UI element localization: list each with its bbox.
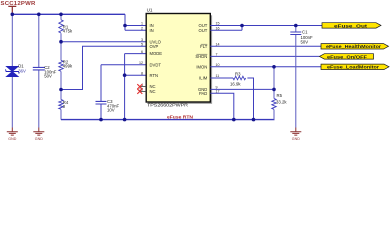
svg-text:12: 12 [139,61,143,65]
wire IN feed [125,14,146,30]
IC pin names right [195,23,207,96]
svg-text:SHDN: SHDN [195,54,207,59]
ground GND (C1) [290,128,301,142]
svg-text:16.9k: 16.9k [230,82,241,87]
FLT overline [201,43,208,45]
no-connect X pin 4 [137,84,142,89]
resistor R4 [59,100,69,110]
resistor R5 [272,93,288,109]
port eFuse_On/OFF [319,54,373,60]
ground GND (C2) [33,128,44,142]
pin numbers right [216,22,220,94]
resistor R1 [59,20,73,34]
IC pin names left [150,23,163,94]
wire ILIM with R3 [210,78,253,120]
wire PAD pin [210,93,234,119]
TVS diode D1 [6,63,26,76]
svg-text:R5: R5 [277,93,283,98]
wire C2 drop [38,14,40,127]
svg-text:R3: R3 [235,72,241,77]
wire C1 column [295,26,297,128]
port eFuse_Out [322,23,381,29]
svg-text:GND: GND [292,137,300,141]
svg-text:eFuse RTN: eFuse RTN [167,115,194,121]
capacitor C1 [290,29,313,44]
wire RTN pin [125,74,147,76]
capacitor C2 [33,65,57,78]
svg-text:MODE: MODE [150,51,163,56]
ground GND (D1) [7,128,18,142]
wire OUT pins [210,26,322,31]
wire R5 column [273,67,275,120]
power port SCC12PWR [1,1,36,13]
wire IMON to port [210,66,321,68]
resistor R2 [59,59,73,71]
svg-text:eFuse_LoadMonitor: eFuse_LoadMonitor [327,65,379,70]
svg-text:499k: 499k [63,64,73,69]
svg-text:eFuse_HealthMonitor: eFuse_HealthMonitor [326,44,381,49]
wire OVP link [61,46,146,89]
IC U1 body [146,14,210,103]
svg-text:6: 6 [141,50,143,54]
svg-text:475k: 475k [63,29,73,34]
svg-text:50V: 50V [44,74,52,79]
svg-text:PAD: PAD [199,91,207,96]
wire top rail [12,13,125,15]
NC pin 13 stub [140,90,146,92]
svg-text:33.2k: 33.2k [276,99,287,104]
svg-text:C1: C1 [302,29,308,34]
svg-text:eFuse_On/OFF: eFuse_On/OFF [327,54,368,59]
svg-text:OVP: OVP [150,44,159,49]
svg-text:IN: IN [150,28,154,33]
pin numbers left [139,22,143,92]
svg-text:SCC12PWR: SCC12PWR [1,1,36,7]
svg-text:10V: 10V [107,108,115,113]
svg-text:NC: NC [150,89,156,94]
wire GND pin [210,88,274,90]
svg-text:FLT: FLT [200,44,208,49]
wire FLT to port [210,45,321,47]
wire SHDN to port [210,55,319,57]
port eFuse_HealthMonitor [321,44,389,50]
SHDN overline [196,53,207,55]
svg-text:3: 3 [141,38,143,42]
svg-text:5: 5 [141,43,143,47]
resistor R3 [230,72,246,87]
wire R divider column [60,14,62,119]
svg-text:1: 1 [141,22,143,26]
svg-text:50V: 50V [301,40,309,45]
no-connect X pin 13 [137,89,142,94]
capacitor C3 [96,99,120,113]
op IC shadow [148,15,212,104]
svg-text:8: 8 [141,71,143,75]
wire bottom rail eFuse RTN [61,119,275,121]
svg-text:GND: GND [35,137,43,141]
svg-text:U1: U1 [147,8,153,13]
svg-text:GND: GND [8,137,16,141]
svg-text:TPS26602PWPR: TPS26602PWPR [147,103,189,108]
svg-text:IMON: IMON [196,64,207,69]
wire D1 drop [11,13,13,128]
svg-text:eFuse_Out: eFuse_Out [334,23,368,28]
port eFuse_LoadMonitor [321,64,389,70]
svg-text:36V: 36V [18,68,26,73]
NC pin 4 stub [140,86,146,88]
svg-text:OUT: OUT [198,28,207,33]
wire MODE column [125,54,147,120]
wire UVLO tap [61,41,146,43]
svg-text:ILIM: ILIM [199,76,208,81]
svg-text:2: 2 [141,27,143,31]
wire DVDT column [101,65,146,120]
svg-text:DVDT: DVDT [150,62,162,67]
svg-text:RTN: RTN [150,73,159,78]
